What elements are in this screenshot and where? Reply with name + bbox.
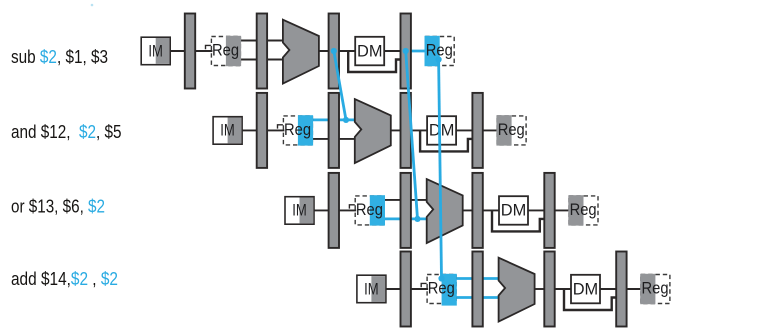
svg-text:Reg: Reg xyxy=(642,278,669,297)
junction dot at ALU top input (and) xyxy=(343,117,349,123)
DM bypass loop (add) xyxy=(564,289,621,310)
wire: ALU to EX/MEM bar (sub) xyxy=(318,50,334,52)
data memory DM (add) xyxy=(571,275,600,304)
wire: MEM/WB bar to write Reg (add) xyxy=(621,288,642,290)
register file write Reg (add) xyxy=(640,274,670,304)
wire: EX/MEM bar to DM (or) xyxy=(478,209,500,211)
wire: IM to IF/ID bar (sub) xyxy=(168,50,190,52)
pipeline register IF/ID bar (or) xyxy=(329,173,339,248)
register file write Reg (or) xyxy=(568,195,598,225)
wire: ALU to EX/MEM bar (and) xyxy=(390,129,406,131)
ALU (sub) xyxy=(283,20,319,84)
pipeline register EX/MEM bar (add) xyxy=(544,252,554,327)
wire: DM to MEM/WB bar (or) xyxy=(527,209,550,211)
svg-text:DM: DM xyxy=(573,279,599,298)
pipeline register ID/EX bar (add) xyxy=(472,252,482,327)
wire: IF/ID bar to Reg (or) xyxy=(334,209,356,211)
pipeline register IF/ID bar (add) xyxy=(401,252,411,327)
read port bracket (add) xyxy=(421,283,426,287)
forwarding line: MEM/WB(sub) to ALU bottom input (or) xyxy=(406,51,418,219)
pipeline register MEM/WB bar (and) xyxy=(472,93,482,168)
forwarding line: EX/MEM(sub) to ALU top input (and) xyxy=(334,51,346,120)
wire: IM to IF/ID bar (add) xyxy=(384,288,406,290)
forwarded wire: Reg to ALU bottom input (add) xyxy=(455,296,501,299)
instruction memory IM (and) xyxy=(213,117,242,145)
ALU (or) xyxy=(427,179,463,243)
pipeline register EX/MEM bar (and) xyxy=(401,93,411,168)
register file read Reg (or) xyxy=(355,195,385,225)
wire: ALU to EX/MEM bar (or) xyxy=(462,209,478,211)
wire: ALU to EX/MEM bar (add) xyxy=(534,288,550,290)
svg-text:sub $2, $1, $3: sub $2, $1, $3 xyxy=(11,47,108,67)
svg-text:Reg: Reg xyxy=(498,120,525,139)
svg-text:Reg: Reg xyxy=(570,200,597,219)
svg-text:IM: IM xyxy=(292,201,307,220)
ALU (and) xyxy=(355,99,391,163)
instruction memory IM (or) xyxy=(285,197,314,225)
pipeline register ID/EX bar (and) xyxy=(329,93,339,168)
data memory DM (and) xyxy=(427,116,456,145)
junction dot at Reg read (add) xyxy=(438,275,444,281)
register file read Reg (sub) xyxy=(211,36,241,66)
pipeline register ID/EX bar (or) xyxy=(401,173,411,248)
svg-text:DM: DM xyxy=(501,201,527,220)
register file write Reg (sub) xyxy=(425,36,455,66)
svg-text:IM: IM xyxy=(220,121,235,140)
wire: DM to MEM/WB bar (sub) xyxy=(383,50,406,52)
data memory DM (sub) xyxy=(355,37,384,66)
register file write Reg (and) xyxy=(496,115,526,145)
wire: IF/ID bar to Reg (and) xyxy=(262,129,285,131)
speck artifact xyxy=(91,4,94,7)
svg-text:IM: IM xyxy=(148,41,163,60)
wire: EX/MEM bar to DM (add) xyxy=(550,288,573,290)
wire: MEM/WB bar to write Reg (or) xyxy=(550,209,571,211)
ALU (add) xyxy=(499,258,535,322)
svg-text:DM: DM xyxy=(429,121,455,140)
junction dot at ALU bottom input (or) xyxy=(414,216,420,222)
wire: MEM/WB bar to write Reg (and) xyxy=(478,129,499,131)
register file read Reg (add) xyxy=(427,274,457,306)
forwarded wire: Reg to ALU top input (add) xyxy=(442,277,501,280)
pipeline register MEM/WB bar (sub) xyxy=(401,14,411,89)
svg-text:or $13, $6, $2: or $13, $6, $2 xyxy=(11,196,105,216)
read port bracket (or) xyxy=(349,205,354,209)
wire: EX/MEM bar to DM (and) xyxy=(406,129,428,131)
svg-text:add $14,$2 , $2: add $14,$2 , $2 xyxy=(11,269,118,289)
forwarded wire: Reg to ALU bottom input (or) xyxy=(383,217,429,220)
wire: Reg to ALU bottom input (and) xyxy=(311,138,356,140)
svg-text:Reg: Reg xyxy=(212,40,239,59)
blue wire: MEM/WB bar to write Reg (sub) xyxy=(406,50,427,53)
junction dot under write Reg (sub) xyxy=(436,56,442,62)
forwarding line: register write(sub) to Reg read (add) xyxy=(439,60,442,279)
DM bypass loop (sub) xyxy=(348,51,406,72)
wire: IM to IF/ID bar (and) xyxy=(240,129,262,131)
pipeline register IF/ID bar (sub) xyxy=(185,14,195,89)
wire: Reg to ALU bottom input (sub) xyxy=(239,59,285,61)
data memory DM (or) xyxy=(499,196,528,225)
svg-text:Reg: Reg xyxy=(356,200,383,219)
junction dot on MEM/WB bar (sub) xyxy=(403,48,409,54)
pipeline register EX/MEM bar (sub) xyxy=(329,14,339,89)
pipeline register ID/EX bar (sub) xyxy=(257,14,267,89)
junction dot on EX/MEM bar (sub) xyxy=(331,48,337,54)
DM bypass loop (or) xyxy=(492,210,550,231)
wire: IM to IF/ID bar (or) xyxy=(312,209,334,211)
pipeline register MEM/WB bar (or) xyxy=(544,173,554,248)
pipeline register MEM/WB bar (add) xyxy=(616,252,626,327)
pipeline register IF/ID bar (and) xyxy=(257,93,267,168)
wire: EX/MEM bar to DM (sub) xyxy=(334,50,356,52)
wire: DM to MEM/WB bar (add) xyxy=(599,288,621,290)
DM bypass loop (and) xyxy=(420,130,478,151)
svg-text:and $12, $2, $5: and $12, $2, $5 xyxy=(11,122,122,142)
pipeline register EX/MEM bar (or) xyxy=(472,173,482,248)
forwarded wire: Reg to ALU top input (and) xyxy=(311,119,356,122)
wire: Reg to ALU top input (or) xyxy=(383,199,429,201)
instruction memory IM (add) xyxy=(357,275,386,303)
svg-text:Reg: Reg xyxy=(284,120,311,139)
wire: IF/ID bar to Reg (add) xyxy=(406,288,428,290)
svg-text:DM: DM xyxy=(357,41,383,60)
read port bracket (and) xyxy=(278,125,283,129)
read port bracket (sub) xyxy=(206,45,211,49)
wire: DM to MEM/WB bar (and) xyxy=(455,129,478,131)
instruction memory IM (sub) xyxy=(141,37,170,64)
wire: Reg to ALU top input (sub) xyxy=(239,40,285,42)
svg-text:IM: IM xyxy=(364,279,379,298)
wire: IF/ID bar to Reg (sub) xyxy=(190,50,212,52)
register file read Reg (and) xyxy=(283,115,313,145)
